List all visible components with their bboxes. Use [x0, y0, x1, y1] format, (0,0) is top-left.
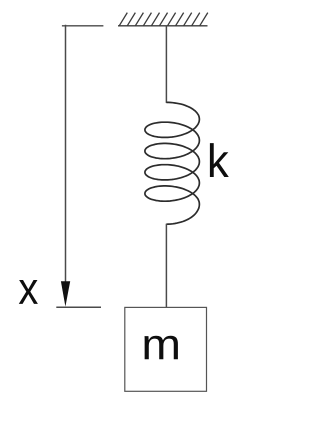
ceiling hatching [119, 13, 208, 26]
label k [210, 143, 229, 177]
dimension base line (bottom) [56, 306, 101, 308]
dimension extension line (top) [62, 25, 104, 27]
label x [19, 280, 38, 304]
arrowhead [61, 281, 70, 306]
wire: ceiling to spring [165, 26, 167, 103]
mass box [125, 307, 207, 391]
dimension line x (vertical) [65, 25, 67, 283]
spring k (coil) [145, 102, 200, 224]
wire: spring to mass [165, 224, 167, 308]
label m [145, 336, 178, 360]
ceiling baseline [118, 25, 208, 27]
